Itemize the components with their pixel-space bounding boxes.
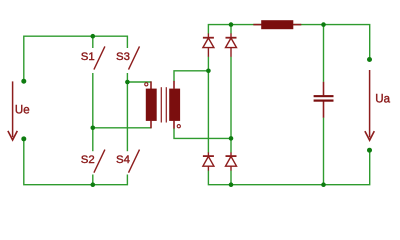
wire: S1 top stub [92,36,94,48]
diode lower-right bottom stub [230,166,232,170]
inductor right lead [293,24,301,26]
wire: right bridge column middle [230,57,232,153]
switch S1 [94,46,105,69]
inductor left lead [253,24,261,26]
junction top rail at right bridge column [229,22,234,27]
diode upper-right bottom stub [230,48,232,57]
capacitor bottom lead [323,102,325,118]
transformer secondary bottom lead [173,121,175,129]
transformer secondary winding [169,89,180,121]
wire: lower-right diode bottom stub [230,170,232,184]
junction secondary top at left bridge column [206,69,211,74]
transformer primary bottom lead [150,121,152,129]
svg-text:S4: S4 [116,154,130,166]
diode upper-left cathode bar [203,37,214,39]
capacitor top plate [314,95,334,97]
wire: secondary bottom wire to bridge [174,128,231,138]
diode upper-left triangle [203,38,214,48]
diode lower-right cathode bar [226,155,237,157]
wire: S2 bottom stub [92,175,94,185]
wire: capacitor bottom column [323,118,325,185]
diode upper-left anode stub [207,33,209,37]
diode lower-left bottom stub [207,166,209,170]
wire: capacitor top column [323,25,325,82]
junction primary top at S3 column [125,80,130,85]
junction primary bottom at S1 column [91,126,96,131]
junction on top-left rail at S1 [91,34,96,39]
diode lower-left triangle [203,156,214,166]
terminal node Ua + [367,57,372,62]
transformer phase dot primary [145,83,148,86]
diode lower-right top stub [230,152,232,156]
wire: S3-S4 middle column [126,73,128,151]
wire: top rail of rectifier to output corner [208,25,369,60]
Ue source arrow shaft [12,81,14,137]
wire: top-left rail with left drop to Ue+ and right drop to S3 [24,36,128,81]
transformer phase dot secondary [177,125,180,128]
svg-text:S1: S1 [81,51,95,63]
terminal node Ue - [21,136,26,141]
wire: secondary top wire to bridge [174,71,208,81]
wire: upper-right diode top stub [230,25,232,34]
transformer primary top lead [150,81,152,89]
Ua output arrow shaft [369,70,371,137]
capacitor bottom plate [314,100,334,102]
wire: primary top lead wire [127,81,151,83]
wire: bottom-left rail from Ue- to S4 [24,139,128,185]
transformer secondary top lead [173,81,175,89]
diode lower-left cathode bar [203,155,214,157]
diode upper-right anode stub [230,33,232,37]
transformer core line right [165,87,167,122]
junction bottom rail at right bridge column [229,182,234,187]
wire: S1-S2 middle column [92,73,94,151]
svg-text:Ue: Ue [15,104,30,116]
terminal node Ua - [367,148,372,153]
Ue arrowhead [8,131,17,140]
switch S4 [129,150,140,173]
wire: primary bottom lead wire [93,127,152,129]
svg-text:Ua: Ua [375,93,390,105]
diode upper-right cathode bar [226,37,237,39]
svg-text:S3: S3 [116,51,130,63]
junction bottom rail at capacitor [321,182,326,187]
transformer core line left [160,87,162,122]
junction secondary bottom at right bridge column [229,136,234,141]
switch S3 [129,46,140,69]
wire: bottom-right rail to Ua- [208,150,369,185]
junction bottom-left rail at S2 [91,182,96,187]
diode lower-right triangle [226,156,237,166]
inductor body [261,20,293,29]
junction top rail at capacitor [321,22,326,27]
switch S2 [94,150,105,173]
svg-text:S2: S2 [81,154,95,166]
capacitor top lead [323,82,325,96]
Ua arrowhead [365,131,374,140]
wire: left bridge column middle [207,57,209,153]
diode lower-left top stub [207,152,209,156]
diode upper-right triangle [226,38,237,48]
transformer primary winding [146,89,157,121]
terminal node Ue + [21,79,26,84]
diode upper-left bottom stub [207,48,209,57]
